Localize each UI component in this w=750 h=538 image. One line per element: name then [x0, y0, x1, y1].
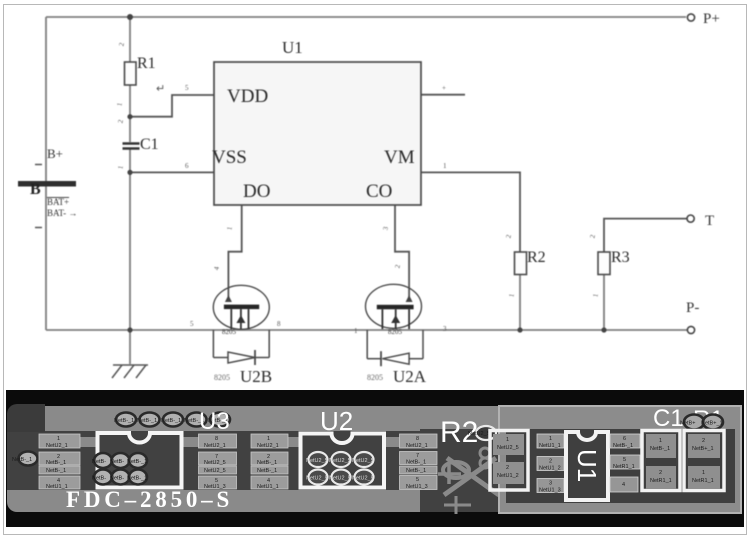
svg-text:8: 8: [215, 436, 218, 442]
svg-text:NetU2_5: NetU2_5: [204, 460, 226, 466]
svg-text:6: 6: [623, 436, 626, 442]
svg-text:NetB-_1: NetB-_1: [127, 459, 147, 465]
battery B1: [18, 146, 77, 228]
svg-text:NetU2_5: NetU2_5: [497, 445, 519, 451]
wire mid rail R1 top lead: [129, 17, 131, 62]
resistor R2: [515, 249, 546, 275]
svg-text:VM: VM: [384, 147, 415, 168]
svg-text:NetB-_1: NetB-_1: [46, 468, 66, 474]
svg-text:R2: R2: [527, 249, 546, 266]
wire left rail upper (B+ down to battery): [45, 17, 47, 181]
transistor Q1 U2B (MOSFET): [213, 285, 269, 329]
wire VDD net: [130, 95, 214, 117]
pad oval U3-a2: [112, 453, 130, 468]
pad oval row B- 2: [140, 413, 160, 427]
footprint R1 frame: [684, 431, 724, 491]
trace 8-shape (R2 zone): [480, 448, 490, 468]
svg-text:NetB-_1: NetB-_1: [406, 460, 426, 466]
net labels U2 ovals: [306, 458, 374, 482]
svg-text:DO: DO: [243, 181, 270, 202]
net labels on oval row: [114, 418, 228, 424]
svg-text:R3: R3: [611, 249, 630, 266]
pad oval row B- 4: [187, 413, 207, 427]
pad 1 NetR1_1 (R1): [688, 466, 720, 489]
footprint U3 (SO-8 outline): [98, 433, 182, 488]
pad 4 (overlay right col): [610, 477, 638, 492]
pad oval row B- 5: [210, 413, 230, 427]
svg-text:U1: U1: [572, 449, 602, 482]
ground: [112, 365, 148, 378]
svg-text:NetR1_1: NetR1_1: [650, 478, 672, 484]
wire NC stub pin: [421, 94, 465, 96]
schematic SVG: [0, 0, 750, 392]
svg-text:NetB+_1: NetB+_1: [701, 421, 723, 427]
resistor R1: [125, 55, 156, 85]
svg-text:1: 1: [659, 438, 662, 444]
svg-text:NetB-: NetB-: [110, 476, 124, 482]
svg-text:5: 5: [623, 457, 626, 463]
pad oval U2-b2: [332, 470, 351, 485]
svg-text:NetU2_5: NetU2_5: [329, 476, 351, 482]
node junction R3 bottom: [601, 327, 606, 332]
svg-text:C1: C1: [653, 405, 684, 432]
svg-text:P-: P-: [686, 300, 699, 316]
svg-text:NetU1_2: NetU1_2: [539, 466, 561, 472]
svg-text:NetB-: NetB-: [110, 459, 124, 465]
svg-text:NetU1_1: NetU1_1: [257, 484, 279, 490]
pad 1 NetU2_1 (mid col): [251, 434, 288, 449]
footprint U1 (SOT outline): [566, 432, 608, 500]
svg-text:NetU2_5: NetU2_5: [204, 468, 226, 474]
pad 5 NetU1_3 (mid right col): [400, 476, 438, 491]
svg-text:BAT- →: BAT- →: [47, 208, 77, 218]
pad oval U3-a1: [94, 453, 112, 468]
svg-text:1: 1: [354, 327, 358, 335]
svg-text:NetB-_1: NetB-_1: [257, 468, 277, 474]
pad 5 NetR1_1 (overlay right col): [610, 455, 640, 470]
node junction top: [127, 14, 133, 20]
svg-text:NetB-_1: NetB-_1: [406, 468, 426, 474]
svg-text:NetU2_5: NetU2_5: [352, 476, 374, 482]
trace (left pads to U3 footprint): [80, 437, 99, 447]
svg-text:5: 5: [416, 477, 419, 483]
svg-text:1: 1: [226, 225, 235, 230]
svg-text:NetU2_1: NetU2_1: [406, 443, 428, 449]
svg-text:4: 4: [622, 482, 625, 488]
svg-text:NetU1_2: NetU1_2: [497, 473, 519, 479]
wire R3 bottom lead: [603, 275, 605, 331]
wire C1 to bottom rail: [129, 149, 131, 330]
wire top rail B+ to P+: [46, 16, 686, 18]
PCB board (left view): [7, 406, 500, 512]
svg-text:U1: U1: [282, 38, 303, 57]
svg-text:8: 8: [416, 436, 419, 442]
trace (U2 footprint to right pads): [383, 437, 401, 447]
resistor R3: [598, 249, 630, 275]
pad 2 NetU1_2 (overlay mid col): [537, 457, 564, 472]
svg-text:FDC–2850–S: FDC–2850–S: [66, 487, 233, 512]
pad 1 NetU2_5 (bracket): [493, 434, 524, 455]
svg-text:NetU2_5: NetU2_5: [329, 458, 351, 464]
wire bottom rail B- to P-: [46, 329, 687, 331]
wire T net: [604, 219, 687, 252]
svg-text:NetB-_1: NetB-_1: [46, 460, 66, 466]
pad 1 NetU2_1 (left col): [39, 434, 80, 449]
svg-text:2: 2: [702, 438, 705, 444]
svg-text:1: 1: [267, 436, 270, 442]
svg-text:VSS: VSS: [212, 147, 247, 168]
svg-text:NetB-_1: NetB-_1: [127, 476, 147, 482]
svg-text:NetU2_5: NetU2_5: [352, 458, 374, 464]
svg-text:B+: B+: [47, 146, 63, 161]
svg-text:1: 1: [57, 436, 60, 442]
pad oval NetU2_5 (R2 zone): [468, 426, 496, 440]
svg-text:8: 8: [277, 320, 281, 328]
svg-text:1: 1: [116, 101, 125, 106]
trace (U3 footprint to right pads): [181, 437, 200, 447]
pad oval U2-a1: [309, 452, 328, 467]
pad oval NetB-_1 (far left): [12, 452, 38, 466]
svg-text:B: B: [30, 181, 41, 198]
svg-text:NetB-_1: NetB-_1: [257, 460, 277, 466]
svg-text:3: 3: [382, 225, 391, 230]
pad oval row B- 3: [163, 413, 183, 427]
svg-text:NetB-_1: NetB-_1: [650, 446, 670, 452]
node junction ground: [127, 327, 132, 332]
svg-text:+: +: [442, 84, 446, 92]
pad NetU2_5 (left sect right col row3): [199, 466, 237, 474]
svg-text:8205: 8205: [367, 373, 383, 382]
diode D2 (U2A body diode): [367, 330, 423, 366]
svg-text:1: 1: [592, 292, 601, 297]
pad 8 NetU2_1 (left sect right col): [199, 434, 237, 449]
svg-text:2: 2: [118, 41, 127, 46]
pad oval U3-b3: [129, 470, 147, 485]
svg-text:1: 1: [702, 470, 705, 476]
trace X (R2 zone): [444, 458, 499, 495]
pad 7 NetU2_5 (left sect right col): [199, 452, 237, 466]
svg-text:6: 6: [185, 162, 189, 170]
trace (mid pads to U2 footprint): [287, 437, 302, 447]
svg-text:NetR1_1: NetR1_1: [613, 464, 635, 470]
pad oval NetB+_1 a: [680, 415, 704, 430]
svg-text:8205: 8205: [222, 328, 237, 336]
wire ground stub: [129, 330, 131, 364]
svg-text:NetU2_5: NetU2_5: [468, 431, 490, 437]
pad oval U3-b2: [112, 470, 130, 485]
svg-text:NetU2_5: NetU2_5: [306, 476, 328, 482]
svg-text:NetU1_3: NetU1_3: [406, 484, 428, 490]
pad oval U2-b3: [355, 470, 374, 485]
svg-text:NetB-_1: NetB-_1: [137, 418, 157, 424]
svg-text:4: 4: [213, 265, 222, 270]
svg-text:5: 5: [190, 320, 194, 328]
pad NetB-_1 (mid right col row3): [400, 466, 438, 474]
terminal P+: [687, 11, 719, 27]
svg-text:NetB+: NetB+: [680, 421, 695, 427]
svg-text:NetU1_1: NetU1_1: [46, 484, 68, 490]
svg-text:R1: R1: [137, 55, 156, 72]
wire DO net to U2B gate: [228, 205, 241, 302]
wire CO net to U2A gate: [395, 205, 409, 302]
node junction R2 bottom: [517, 327, 522, 332]
svg-text:NetU1_3: NetU1_3: [539, 488, 561, 494]
svg-text:8205: 8205: [388, 328, 403, 336]
PCB photo background: [6, 390, 744, 527]
transistor Q2 U2A (MOSFET): [366, 284, 422, 329]
pad 2 NetB-_1 (left col): [39, 452, 80, 466]
op-amp U1 (protection IC): [212, 38, 421, 205]
node junction VDD: [127, 114, 132, 119]
svg-text:NetU2_1: NetU2_1: [204, 443, 226, 449]
svg-text:1: 1: [117, 164, 126, 169]
svg-text:U3: U3: [199, 408, 230, 435]
svg-text:1: 1: [506, 437, 509, 443]
pad NetB-_1 (mid col row3): [251, 466, 288, 474]
svg-text:VDD: VDD: [227, 86, 268, 107]
svg-text:NetU1_1: NetU1_1: [539, 443, 561, 449]
pad 2 NetB+_1 (R1): [688, 434, 720, 458]
PCB dark zone around R2: [420, 429, 500, 512]
svg-text:1: 1: [508, 292, 517, 297]
wire VM net to R2: [421, 172, 520, 252]
wire left rail lower (battery to bottom rail): [45, 186, 47, 330]
trace cross 1 (R2 zone): [438, 465, 461, 484]
PCB board (right view): [499, 406, 741, 513]
svg-text:5: 5: [185, 84, 189, 92]
pad 2 NetR1_1 (C1): [646, 466, 676, 489]
pad oval U2-a3: [355, 452, 374, 467]
trace cross 2 (R2 zone): [444, 496, 471, 514]
svg-text:2: 2: [505, 233, 514, 238]
svg-text:U2B: U2B: [240, 367, 272, 386]
pad 8 NetU2_1 (mid right col): [400, 434, 438, 449]
wire R2 bottom lead: [519, 275, 521, 331]
svg-text:2: 2: [506, 465, 509, 471]
PCB dark solder zone (left view): [7, 431, 500, 490]
svg-text:U2A: U2A: [393, 367, 427, 386]
svg-text:2: 2: [549, 459, 552, 465]
pad oval row B- 1: [116, 413, 136, 427]
pad oval U3-a3: [129, 453, 147, 468]
pad 7 NetB-_1 (mid right col): [400, 452, 438, 466]
terminal P-: [686, 300, 699, 334]
PCB dark corner patch top-left: [7, 404, 45, 432]
pad 2 NetU1_2 (bracket): [493, 462, 524, 484]
net labels U3 ovals: [92, 459, 147, 482]
pad oval U2-a2: [332, 452, 351, 467]
footprint bracket (overlay left): [490, 431, 528, 491]
trace ellipse (R2 zone): [443, 462, 469, 478]
footprint U2 (SO-8 outline): [301, 434, 385, 488]
pad 6 NetB-_1 (overlay right col): [610, 434, 640, 449]
pad oval U3-b1: [94, 470, 112, 485]
svg-text:1: 1: [443, 162, 447, 170]
svg-text:P+: P+: [703, 11, 720, 27]
wire R1 bottom to C1: [129, 85, 131, 142]
pad oval U2-b1: [309, 470, 328, 485]
svg-text:NetB-_1: NetB-_1: [12, 457, 32, 463]
svg-text:1: 1: [549, 436, 552, 442]
svg-text:NetR1_1: NetR1_1: [692, 478, 714, 484]
svg-text:NetB-: NetB-: [92, 459, 106, 465]
svg-text:2: 2: [659, 470, 662, 476]
svg-text:7: 7: [416, 453, 419, 459]
pad NetB-_1 (left col row3): [39, 466, 80, 474]
svg-text:NetB-_1: NetB-_1: [161, 418, 181, 424]
svg-text:NetU2_5: NetU2_5: [306, 458, 328, 464]
pad oval NetB+_1 b: [701, 415, 723, 430]
svg-text:↵: ↵: [156, 83, 165, 95]
capacitor C1: [123, 136, 159, 153]
svg-text:8205: 8205: [214, 373, 230, 382]
svg-text:2: 2: [394, 263, 403, 268]
terminal T: [687, 213, 714, 229]
diode D1 (U2B body diode): [213, 330, 269, 365]
svg-text:NetB-: NetB-: [92, 476, 106, 482]
footprint C1 frame: [642, 431, 680, 491]
svg-text:T: T: [705, 213, 714, 229]
svg-text:NetU2_1: NetU2_1: [257, 443, 279, 449]
svg-text:CO: CO: [366, 181, 392, 202]
svg-text:3: 3: [443, 325, 447, 333]
pad 3 NetU1_3 (overlay mid col): [537, 479, 564, 494]
node junction VSS: [127, 170, 132, 175]
pad 5 NetU1_3 (left sect right col): [199, 476, 237, 490]
svg-text:NetB+_1: NetB+_1: [692, 446, 714, 452]
svg-text:2: 2: [117, 118, 126, 123]
svg-text:C1: C1: [140, 136, 159, 153]
svg-text:BAT+: BAT+: [47, 197, 69, 207]
svg-text:NetB-_1: NetB-_1: [613, 443, 633, 449]
pad 1 NetB-_1 (C1): [646, 434, 676, 458]
svg-text:3: 3: [549, 481, 552, 487]
pad 4 NetU1_1 (mid col): [251, 476, 288, 490]
PCB dark solder zone (right view): [506, 429, 735, 503]
pad 1 NetU1_1 (overlay mid col): [537, 434, 564, 449]
svg-text:2: 2: [589, 233, 598, 238]
pad 4 NetU1_1 (left col): [39, 476, 80, 490]
svg-text:NetU2_1: NetU2_1: [46, 443, 68, 449]
svg-text:NetB-_1: NetB-_1: [114, 418, 134, 424]
wire VSS net: [130, 171, 214, 173]
pad 2 NetB-_1 (mid col): [251, 452, 288, 466]
